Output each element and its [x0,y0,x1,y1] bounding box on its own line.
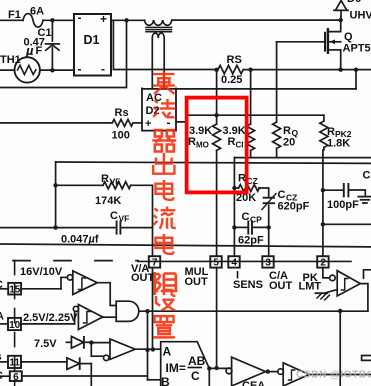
svg-text:100pF: 100pF [327,199,359,211]
svg-text:C: C [242,211,250,223]
svg-text:VF: VF [110,177,121,187]
svg-text:6: 6 [13,372,19,383]
svg-text:1.8K: 1.8K [327,138,350,150]
svg-text:C: C [278,189,286,201]
svg-text:16V/10V: 16V/10V [20,266,63,278]
svg-text:7: 7 [152,258,158,269]
svg-text:C: C [0,370,3,382]
svg-text:-: - [101,62,105,76]
svg-text:C: C [0,279,3,291]
svg-text:15: 15 [9,285,21,296]
svg-text:IM=: IM= [166,361,186,375]
svg-text:-: - [78,62,82,76]
svg-text:+: + [100,12,107,26]
svg-text:D1: D1 [84,33,100,47]
svg-text:6A: 6A [30,6,44,18]
svg-text:CEA: CEA [242,380,265,386]
svg-text:UHVP: UHVP [350,10,371,22]
svg-text:AC: AC [146,92,162,104]
svg-text:0.25: 0.25 [221,74,242,86]
svg-text:VF: VF [119,214,130,224]
svg-text:100: 100 [112,130,130,142]
svg-text:AB: AB [188,354,206,368]
svg-text:µ: µ [25,43,34,58]
svg-text:D6: D6 [347,0,361,5]
svg-text:CI: CI [236,141,244,150]
svg-text:R: R [327,126,335,138]
svg-text:62pF: 62pF [238,235,264,247]
svg-text:5: 5 [213,258,219,269]
svg-text:11: 11 [9,358,20,369]
svg-text:OUT: OUT [185,276,209,288]
svg-text:C: C [110,210,118,222]
svg-text:SENS: SENS [233,279,263,291]
svg-text:CP: CP [250,215,262,225]
svg-text:OUT: OUT [269,280,293,292]
svg-text:CSDN @IOTBOT: CSDN @IOTBOT [296,370,371,381]
svg-text:RS: RS [227,54,242,66]
svg-text:R: R [101,173,109,185]
svg-text:10: 10 [9,320,21,331]
svg-text:Q: Q [344,31,353,43]
svg-text:Rs: Rs [115,107,129,119]
svg-text:TH1: TH1 [0,54,21,66]
svg-text:A: A [163,345,172,359]
svg-text:0.047µf: 0.047µf [61,234,99,246]
svg-text:C: C [191,369,200,383]
svg-text:R: R [228,136,236,148]
svg-text:LMT: LMT [299,281,322,293]
svg-text:-: - [78,11,82,25]
svg-text:F1: F1 [8,9,21,21]
svg-text:2: 2 [320,258,326,269]
svg-text:7.5V: 7.5V [34,338,57,350]
svg-text:+: + [145,118,151,130]
svg-text:B: B [161,375,170,386]
svg-text:3: 3 [265,258,271,269]
svg-text:R: R [283,125,291,137]
svg-text:APT50: APT50 [343,43,371,55]
svg-text:s: s [0,351,2,363]
svg-text:2.5V/2.25V: 2.5V/2.25V [23,312,78,324]
svg-text:620pF: 620pF [278,201,310,213]
svg-text:F: F [36,45,43,57]
svg-text:OUT: OUT [131,272,155,284]
svg-text:A: A [0,311,4,323]
svg-text:D2: D2 [146,105,160,117]
svg-text:C: C [363,170,371,182]
svg-text:174K: 174K [95,195,121,207]
svg-text:4: 4 [231,258,237,269]
svg-text:MO: MO [196,141,209,150]
svg-text:20: 20 [283,137,295,149]
svg-text:R: R [188,136,196,148]
